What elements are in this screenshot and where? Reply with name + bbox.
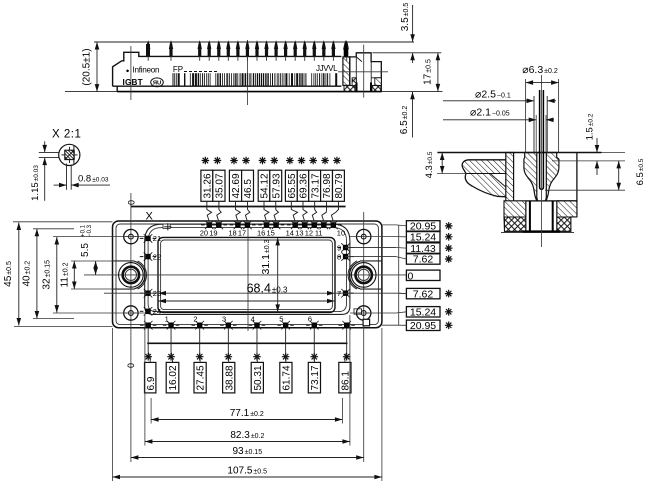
svg-text:54.12: 54.12 [260,173,271,198]
svg-text:19: 19 [209,229,217,238]
svg-text:38.88: 38.88 [224,365,235,390]
svg-text:50.31: 50.31 [253,365,264,390]
svg-text:−0.3: −0.3 [87,224,93,237]
svg-text:(20.5±1): (20.5±1) [82,48,93,85]
svg-text:IGBT: IGBT [123,78,143,87]
svg-text:10: 10 [337,229,345,238]
svg-text:76.98: 76.98 [322,173,333,198]
svg-text:5.5: 5.5 [80,243,91,257]
svg-text:61.74: 61.74 [282,365,293,390]
svg-text:69.36: 69.36 [299,173,310,198]
svg-text:22: 22 [153,252,161,261]
svg-text:11: 11 [315,229,323,238]
svg-text:18: 18 [228,229,236,238]
svg-text:ЯU: ЯU [153,81,161,87]
svg-text:X: X [146,211,154,223]
svg-text:27.45: 27.45 [196,365,207,390]
svg-text:16.02: 16.02 [168,365,179,390]
svg-text:X 2:1: X 2:1 [52,129,81,141]
svg-text:65.55: 65.55 [287,173,298,198]
svg-text:0: 0 [408,271,414,283]
svg-text:20: 20 [200,229,208,238]
svg-text:JJVVL: JJVVL [316,64,338,73]
svg-text:14: 14 [286,229,294,238]
svg-text:17: 17 [238,229,246,238]
svg-text:46.5: 46.5 [243,179,254,199]
svg-text:5: 5 [279,314,283,323]
svg-text:4: 4 [251,314,255,323]
svg-text:6: 6 [308,314,312,323]
svg-text:21: 21 [153,234,161,243]
svg-text:2: 2 [193,314,197,323]
svg-text:73.17: 73.17 [310,365,321,390]
svg-text:12: 12 [305,229,313,238]
svg-text:20.95: 20.95 [410,320,436,332]
svg-text:13: 13 [295,229,303,238]
svg-text:80.79: 80.79 [334,173,345,198]
svg-text:31.26: 31.26 [202,173,213,198]
svg-text:1: 1 [165,314,169,323]
svg-text:FP: FP [173,65,183,74]
svg-text:8: 8 [337,252,341,261]
svg-text:16: 16 [257,229,265,238]
svg-text:57.93: 57.93 [271,173,282,198]
svg-text:0: 0 [126,363,136,368]
svg-text:24: 24 [153,307,161,316]
svg-text:Infineon: Infineon [133,66,160,75]
svg-text:7.62: 7.62 [413,288,434,300]
svg-text:7.62: 7.62 [413,254,434,266]
svg-text:0: 0 [127,200,137,205]
svg-text:+0.1: +0.1 [81,224,87,237]
svg-text:42.69: 42.69 [231,173,242,198]
svg-text:15: 15 [267,229,275,238]
svg-text:●: ● [126,68,130,74]
svg-text:15.24: 15.24 [410,307,436,319]
svg-text:73.17: 73.17 [310,173,321,198]
svg-text:9: 9 [337,243,341,252]
svg-text:15.24: 15.24 [410,232,436,244]
svg-text:35.07: 35.07 [215,173,226,198]
svg-text:3: 3 [222,314,226,323]
svg-text:6.9: 6.9 [146,376,157,390]
